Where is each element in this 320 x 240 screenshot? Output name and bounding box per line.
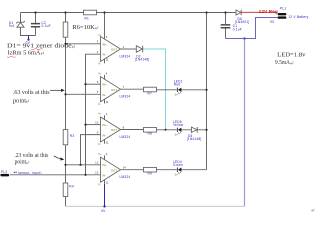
svg-text:11: 11 — [106, 57, 109, 61]
svg-text:IN-: IN- — [102, 53, 106, 57]
svg-text:9.5mA: 9.5mA — [275, 60, 291, 66]
svg-text:sensor: sensor — [18, 171, 30, 175]
svg-text:V+: V+ — [98, 71, 102, 75]
svg-text:point: point — [15, 160, 27, 166]
svg-text:-: - — [29, 171, 30, 175]
svg-text:Green: Green — [173, 163, 183, 167]
svg-text:0V: 0V — [270, 20, 275, 24]
svg-text:Red: Red — [174, 83, 181, 87]
svg-text:OUT: OUT — [111, 88, 117, 92]
svg-text:11: 11 — [106, 181, 109, 185]
svg-text:Yellow: Yellow — [173, 123, 184, 127]
svg-text:V-: V- — [98, 102, 101, 106]
svg-text:R1: R1 — [85, 17, 90, 21]
svg-text:13: 13 — [95, 171, 99, 175]
svg-text:OUT: OUT — [111, 128, 117, 132]
svg-text:12: 12 — [95, 161, 99, 165]
svg-text:LM324: LM324 — [120, 175, 131, 179]
svg-text:R7: R7 — [148, 91, 153, 95]
svg-text:IzRm 5 6mA: IzRm 5 6mA — [8, 50, 42, 56]
svg-text:[1N4001]: [1N4001] — [235, 20, 250, 24]
svg-text:IN+: IN+ — [102, 83, 107, 87]
svg-text:V+: V+ — [98, 33, 102, 37]
svg-text:11: 11 — [106, 141, 109, 145]
svg-text:.63 volts at this: .63 volts at this — [13, 90, 50, 96]
svg-text:LED=1.8v: LED=1.8v — [277, 53, 305, 59]
svg-text:R3: R3 — [70, 134, 75, 138]
svg-text:point: point — [13, 98, 26, 104]
svg-text:IN-: IN- — [102, 93, 106, 97]
svg-text:14: 14 — [123, 165, 127, 169]
svg-text:LM324: LM324 — [120, 135, 131, 139]
svg-text:V-: V- — [98, 62, 101, 66]
svg-text:IN+: IN+ — [102, 123, 107, 127]
svg-text:R8: R8 — [148, 132, 153, 136]
svg-text:OUT: OUT — [111, 168, 117, 172]
svg-text:LM324: LM324 — [120, 55, 131, 59]
svg-text:V+: V+ — [98, 152, 102, 156]
svg-text:IN-: IN- — [102, 174, 106, 178]
svg-text:R4: R4 — [69, 185, 74, 189]
svg-text:11: 11 — [106, 100, 109, 104]
svg-text:OUT: OUT — [111, 48, 117, 52]
svg-text:[1N4148]: [1N4148] — [187, 137, 202, 141]
svg-text:PL1: PL1 — [280, 7, 286, 11]
svg-text:R6=10K: R6=10K — [72, 25, 95, 31]
svg-text:LM324: LM324 — [120, 95, 131, 99]
svg-text:V-: V- — [98, 142, 101, 146]
svg-text:12 V Battery: 12 V Battery — [288, 15, 308, 19]
svg-text:V+: V+ — [98, 112, 102, 116]
svg-text:9v1: 9v1 — [9, 24, 15, 28]
svg-text:D1= 9v1 zener diode: D1= 9v1 zener diode — [7, 44, 72, 50]
svg-text:l: l — [41, 171, 42, 175]
svg-text:0V: 0V — [101, 209, 106, 213]
svg-text:[1N4148]: [1N4148] — [135, 57, 150, 61]
svg-text:0.1uF: 0.1uF — [42, 24, 51, 28]
svg-text:0.1uF: 0.1uF — [233, 27, 242, 31]
svg-text:V-: V- — [98, 182, 101, 186]
svg-text:R9: R9 — [148, 172, 153, 176]
svg-text:PL2: PL2 — [1, 170, 7, 174]
svg-text:IN-: IN- — [102, 133, 106, 137]
svg-text:input: input — [32, 171, 40, 175]
svg-text:12V Reg: 12V Reg — [259, 9, 278, 14]
svg-text:10: 10 — [95, 120, 99, 124]
svg-text:IN+: IN+ — [102, 42, 107, 46]
svg-text:.23 volts at this: .23 volts at this — [14, 153, 48, 159]
svg-text:IN+: IN+ — [102, 163, 107, 167]
